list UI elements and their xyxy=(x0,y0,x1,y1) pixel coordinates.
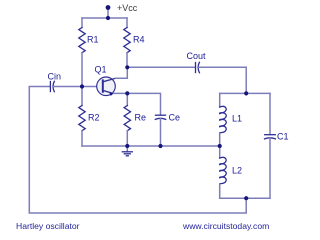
svg-text:Re: Re xyxy=(135,113,147,123)
svg-text:www.circuitstoday.com: www.circuitstoday.com xyxy=(182,221,269,231)
svg-text:L1: L1 xyxy=(232,114,242,124)
capacitor Cout xyxy=(195,63,197,73)
wire L1 bottom lead xyxy=(219,133,221,146)
svg-text:Q1: Q1 xyxy=(95,65,107,75)
svg-text:R1: R1 xyxy=(87,35,99,45)
node Vcc rail junction xyxy=(106,16,110,20)
svg-text:C1: C1 xyxy=(277,132,289,142)
node tank bottom junction xyxy=(244,196,248,200)
node Ce ground junction xyxy=(158,144,162,148)
wire R2 top lead xyxy=(81,87,83,106)
svg-text:R2: R2 xyxy=(88,113,100,123)
node Re ground junction xyxy=(125,144,129,148)
resistor R4 xyxy=(124,28,130,53)
wire R4 bottom lead xyxy=(126,53,128,68)
wire R2 bottom lead xyxy=(81,131,83,146)
ground xyxy=(122,146,132,156)
svg-text:Hartley oscillator: Hartley oscillator xyxy=(16,221,80,231)
wire Re bottom lead xyxy=(126,131,128,146)
inductor L2 xyxy=(220,157,227,184)
wire Cout rail right xyxy=(199,67,247,93)
capacitor Ce xyxy=(156,114,166,116)
wire R1 bottom lead xyxy=(81,53,83,87)
resistor R2 xyxy=(79,106,85,131)
wire collector lead xyxy=(116,67,128,78)
svg-text:L2: L2 xyxy=(232,166,242,176)
node emitter junction xyxy=(125,91,129,95)
node tank tap junction xyxy=(218,144,222,148)
wire L1 top lead xyxy=(219,93,221,107)
wire L2 bottom lead xyxy=(219,184,221,198)
wire Cout rail left xyxy=(127,66,195,68)
node tank top junction xyxy=(244,91,248,95)
wire feedback left/bottom loop xyxy=(29,87,246,214)
capacitor C1 xyxy=(265,134,276,136)
wire C1 top lead xyxy=(269,93,271,134)
transistor Q1 xyxy=(97,77,116,96)
wire base rail xyxy=(54,86,103,88)
wire ground rail xyxy=(82,145,220,147)
wire tank bottom xyxy=(220,197,270,199)
svg-text:Cout: Cout xyxy=(187,51,207,61)
svg-text:R4: R4 xyxy=(133,35,145,45)
resistor Re xyxy=(124,106,130,131)
wire R4 top lead xyxy=(126,18,128,28)
svg-text:Ce: Ce xyxy=(169,113,181,123)
node +Vcc terminal xyxy=(106,5,111,10)
node collector junction xyxy=(125,65,129,69)
resistor R1 xyxy=(79,28,85,53)
wire Vcc stub xyxy=(107,8,109,18)
wire Ce bottom lead xyxy=(160,119,162,146)
wire R1 top lead xyxy=(81,18,83,28)
node base junction xyxy=(80,84,84,88)
capacitor Cin xyxy=(49,82,51,92)
svg-text:+Vcc: +Vcc xyxy=(117,3,138,13)
svg-text:Cin: Cin xyxy=(48,72,62,82)
wire Vcc rail xyxy=(82,17,127,19)
wire L2 top lead xyxy=(219,146,221,158)
wire C1 bottom lead xyxy=(269,138,271,198)
wire tank top xyxy=(220,92,270,94)
inductor L1 xyxy=(220,106,227,133)
wire Re top lead xyxy=(126,93,128,105)
wire emitter rail xyxy=(114,93,161,115)
